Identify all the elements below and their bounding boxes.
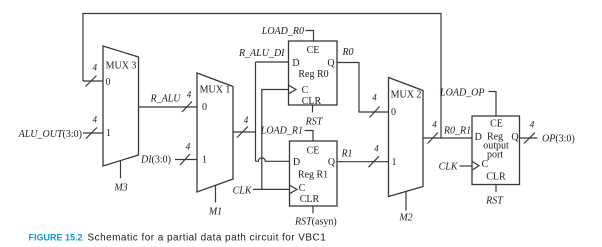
svg-text:Reg R0: Reg R0 — [298, 69, 328, 80]
svg-text:Q: Q — [511, 132, 519, 143]
wire LOAD_OP — [489, 92, 497, 117]
svg-text:CLK: CLK — [439, 162, 459, 173]
mux MUX2 — [389, 78, 424, 197]
svg-text:Q: Q — [327, 58, 335, 69]
register Reg R0 box — [289, 41, 338, 105]
svg-text:1: 1 — [392, 157, 397, 168]
svg-text:0: 0 — [202, 102, 207, 113]
svg-text:CLR: CLR — [486, 172, 506, 183]
wire D input Reg R0 — [256, 61, 289, 63]
svg-text:C: C — [299, 183, 306, 194]
wire M1 select — [215, 186, 217, 203]
svg-text:Reg R1: Reg R1 — [298, 170, 328, 181]
svg-text:4: 4 — [244, 115, 249, 125]
svg-text:DI(3:0): DI(3:0) — [140, 155, 171, 166]
wire R_ALU — [139, 106, 198, 108]
bus slash R0 — [370, 107, 380, 118]
svg-text:4: 4 — [372, 93, 377, 103]
bus slash ALU_OUT — [86, 128, 97, 139]
wire D input Reg R1 with hop over CLK — [256, 158, 290, 162]
wire ALU_OUT input — [83, 132, 103, 134]
svg-text:D: D — [292, 58, 299, 69]
clock triangle Reg R1 — [290, 185, 298, 194]
svg-text:CE: CE — [490, 118, 503, 129]
svg-text:R_ALU_DI: R_ALU_DI — [238, 48, 285, 59]
svg-text:C: C — [302, 85, 309, 96]
svg-text:D: D — [475, 132, 482, 143]
mux MUX3 — [103, 46, 139, 166]
svg-text:RST(asyn): RST(asyn) — [294, 217, 337, 228]
wire OP output — [520, 137, 538, 139]
svg-text:CE: CE — [307, 45, 320, 56]
wire MUX3 input 0 — [83, 80, 103, 82]
clock triangle output port — [472, 161, 479, 170]
svg-text:M2: M2 — [398, 213, 412, 224]
bus slash DI — [180, 154, 190, 165]
wire RST(asyn) stub Reg R1 — [312, 206, 314, 213]
svg-text:1: 1 — [106, 128, 111, 139]
clock triangle Reg R0 — [289, 85, 297, 94]
wire R0_R1 MUX2 output to output port D — [423, 137, 472, 139]
svg-text:R0_R1: R0_R1 — [443, 126, 471, 137]
svg-text:LOAD_OP: LOAD_OP — [439, 88, 484, 99]
wire RST stub Reg R0 — [312, 105, 314, 113]
wire M3 select — [120, 161, 122, 178]
svg-text:0: 0 — [391, 107, 396, 118]
svg-text:1: 1 — [202, 155, 207, 166]
svg-text:0: 0 — [106, 77, 111, 88]
wire LOAD_R0 — [306, 31, 314, 42]
svg-text:MUX 3: MUX 3 — [106, 61, 137, 72]
bus slash R1 — [369, 156, 380, 167]
register output port box — [472, 116, 520, 185]
bus slash R0_R1 — [428, 133, 439, 144]
svg-text:M3: M3 — [113, 183, 127, 194]
svg-text:LOAD_R0: LOAD_R0 — [261, 26, 304, 37]
wire feedback top (R0_R1 to MUX3 input 0) — [83, 14, 441, 139]
svg-text:R0: R0 — [341, 47, 353, 58]
svg-text:port: port — [487, 150, 503, 161]
svg-text:CE: CE — [307, 146, 320, 157]
svg-text:ALU_OUT(3:0): ALU_OUT(3:0) — [18, 129, 82, 140]
wire CLK to output port — [460, 165, 473, 167]
wire R0 output to MUX2 input 0 — [337, 63, 389, 113]
svg-text:MUX 2: MUX 2 — [391, 90, 422, 101]
svg-text:CLK: CLK — [233, 186, 253, 197]
wire CLK vertical up to Reg R0 C — [262, 90, 289, 190]
mux MUX1 — [197, 73, 233, 192]
svg-text:OP(3:0): OP(3:0) — [542, 134, 575, 145]
svg-text:Schematic for a partial data p: Schematic for a partial data path circui… — [88, 233, 327, 244]
svg-text:4: 4 — [186, 142, 191, 152]
svg-text:4: 4 — [187, 90, 192, 100]
bus slash MUX3 input 0 — [86, 76, 97, 87]
wire RST stub output port — [495, 185, 497, 193]
wire DI input — [175, 159, 197, 161]
svg-text:CLR: CLR — [302, 96, 322, 107]
svg-text:RST: RST — [305, 117, 324, 128]
svg-text:LOAD_R1: LOAD_R1 — [260, 126, 303, 137]
svg-text:C: C — [482, 159, 489, 170]
svg-text:4: 4 — [432, 120, 437, 130]
svg-text:4: 4 — [530, 120, 535, 130]
bus slash R_ALU — [182, 102, 192, 113]
bus slash MUX1 output — [237, 127, 248, 138]
wire trunk vertical R_ALU_DI — [255, 62, 257, 161]
svg-text:4: 4 — [92, 115, 97, 125]
wire MUX1 output — [233, 131, 256, 133]
svg-text:FIGURE 15.2: FIGURE 15.2 — [29, 233, 83, 243]
svg-text:MUX 1: MUX 1 — [200, 85, 231, 96]
wire M2 select — [405, 192, 407, 211]
svg-text:CLR: CLR — [300, 194, 320, 205]
wire R1 output to MUX2 input 1 — [337, 161, 389, 163]
wire CLK horizontal to Reg R1 C — [253, 188, 290, 190]
svg-text:M1: M1 — [208, 207, 222, 218]
svg-text:Q: Q — [328, 157, 336, 168]
svg-text:4: 4 — [374, 144, 379, 154]
svg-text:RST: RST — [485, 196, 504, 207]
register Reg R1 box — [290, 141, 338, 206]
wire LOAD_R1 — [305, 131, 314, 142]
svg-text:R1: R1 — [340, 149, 352, 160]
svg-text:D: D — [293, 157, 300, 168]
bus slash OP — [524, 133, 535, 144]
svg-text:4: 4 — [92, 63, 97, 73]
svg-text:R_ALU: R_ALU — [150, 94, 182, 105]
